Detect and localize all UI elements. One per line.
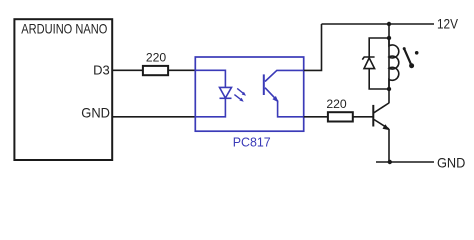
flyback diode D2 triangle [364,58,375,69]
wire LED cathode to box edge [195,98,225,117]
LED D1 triangle [220,87,232,98]
wire collector out to 12V riser [304,24,322,70]
svg-text:ARDUINO NANO: ARDUINO NANO [21,21,107,36]
svg-text:12V: 12V [437,15,459,31]
relay contact lever [404,48,412,65]
resistor R1 220 [143,66,168,75]
junction dot on ground rail [388,160,392,164]
wire diode to bottom branch [369,69,389,89]
wire GND to optocoupler [112,116,195,118]
svg-text:220: 220 [146,50,167,64]
relay contact throw dot [415,51,419,55]
phototransistor collector [265,70,304,81]
wire D3 to R1 [112,69,143,71]
phototransistor base bar [263,74,265,95]
relay contact pole dot [409,63,414,68]
wire R1 to optocoupler [168,69,195,71]
junction dot on 12V rail [387,22,391,26]
light arrow 1 [237,88,246,95]
resistor R2 220 [328,112,353,121]
transistor Q1 base bar [372,105,374,127]
transistor Q1 emitter diagonal [374,120,389,130]
svg-text:220: 220 [326,97,347,111]
wire diode branch top [369,38,389,57]
flyback diode D2 cathode bar [362,57,374,60]
LED D1 cathode bar [220,97,232,99]
relay coil L1 [388,38,390,89]
wire emitter down to ground rail [388,129,390,162]
ground rail wire [376,161,434,163]
phototransistor emitter arrow [272,96,278,102]
light arrow 2 [234,95,243,102]
wire emitter out to base resistor [304,116,328,118]
wire LED anode feed [195,70,225,87]
svg-text:D3: D3 [93,63,110,78]
relay contact lever top cap [403,47,406,50]
wire rail to branch node [388,24,390,38]
wire coil to transistor collector [388,89,390,103]
Arduino Nano box U2 [14,19,112,160]
svg-text:GND: GND [81,105,110,121]
transistor Q1 collector diagonal [374,103,389,113]
junction dot branch bottom [387,87,391,91]
wire 12V rail [322,23,435,25]
junction dot branch top [387,36,391,40]
wire R2 to base [353,116,374,118]
phototransistor emitter [265,88,304,117]
svg-text:GND: GND [437,155,465,171]
svg-text:PC817: PC817 [233,134,271,149]
optocoupler U1 box [195,57,303,131]
transistor Q1 emitter arrow [383,124,390,130]
